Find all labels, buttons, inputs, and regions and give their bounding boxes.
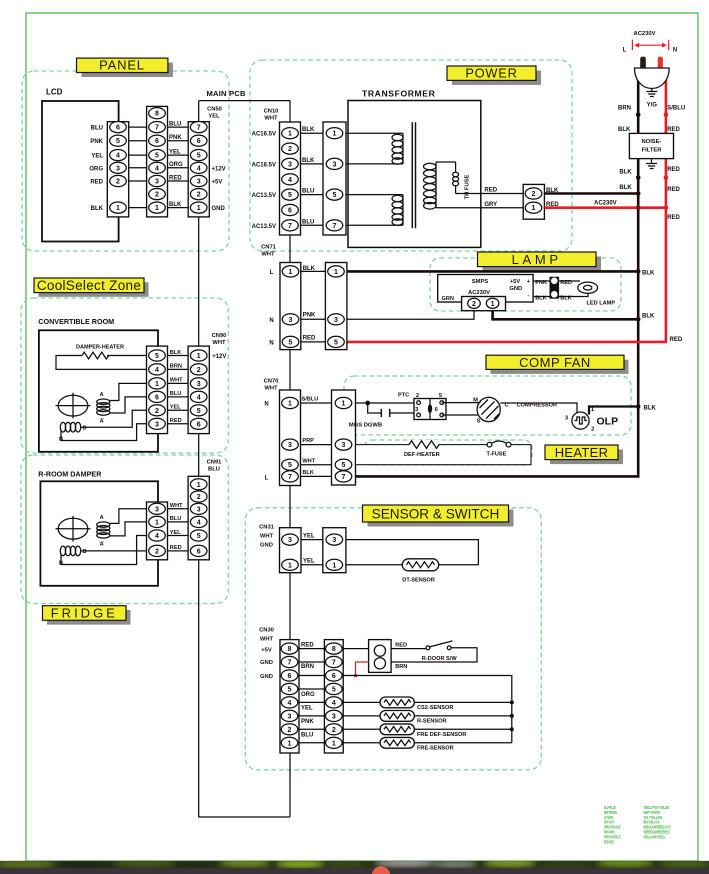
svg-text:Y/G: Y/G [647, 103, 658, 109]
compressor motor [442, 397, 557, 424]
transformer T1 [346, 89, 523, 248]
svg-text:A: A [100, 392, 104, 398]
damper motor (convertible) [56, 393, 91, 419]
svg-text:4: 4 [155, 165, 159, 172]
svg-text:LED LAMP: LED LAMP [587, 301, 616, 307]
svg-text:BRN: BRN [395, 664, 407, 670]
damper connector (r-room) [147, 502, 168, 560]
svg-text:MGS DGWB: MGS DGWB [349, 423, 382, 429]
svg-text:RED: RED [301, 642, 314, 648]
SENSOR &amp; SWITCH section dashed boundary [245, 508, 541, 770]
svg-text:ORG: ORG [301, 692, 315, 698]
svg-text:RED: RED [90, 180, 103, 186]
svg-text:4: 4 [155, 367, 159, 374]
svg-text:WHT: WHT [264, 116, 278, 122]
svg-text:3: 3 [288, 442, 292, 449]
svg-text:N: N [269, 340, 273, 346]
svg-text:6: 6 [332, 673, 336, 680]
svg-text:GND: GND [260, 660, 273, 666]
CN30 wire labels [301, 642, 315, 738]
svg-text:A: A [100, 542, 104, 548]
svg-text:BLK: BLK [535, 296, 547, 302]
svg-text:1: 1 [155, 381, 159, 388]
svg-text:6: 6 [116, 125, 120, 132]
svg-text:BLK: BLK [618, 127, 631, 133]
svg-text:3: 3 [332, 713, 336, 720]
svg-text:CN90: CN90 [212, 333, 227, 339]
svg-text:3: 3 [289, 317, 293, 324]
CN70 wire labels [302, 397, 319, 477]
svg-text:LCD: LCD [46, 88, 63, 97]
junction node [365, 401, 370, 406]
svg-text:R-ROOM DAMPER: R-ROOM DAMPER [38, 470, 102, 479]
svg-text:YEL: YEL [301, 706, 313, 712]
CN71 wire labels [303, 266, 316, 342]
wires damper to CN91 [168, 509, 189, 551]
svg-text:3: 3 [197, 506, 201, 513]
SMPS input connector [462, 297, 506, 311]
sensor harness connector [324, 640, 343, 753]
svg-text:5: 5 [332, 687, 336, 694]
svg-text:L: L [265, 476, 269, 482]
svg-text:N: N [264, 402, 268, 408]
svg-text:1: 1 [197, 482, 201, 489]
svg-text:DAMPER-HEATER: DAMPER-HEATER [76, 345, 124, 351]
svg-text:PTC: PTC [398, 392, 409, 398]
PTC starter [398, 392, 446, 419]
AC230V black wire to noise filter [544, 194, 638, 207]
svg-text:1: 1 [155, 519, 159, 526]
sensor FRE DEF [343, 724, 512, 738]
HEATER label [545, 445, 623, 464]
svg-text:8: 8 [155, 111, 159, 118]
sensor CS2 [343, 697, 512, 711]
svg-text:1: 1 [155, 205, 159, 212]
harness wire colour labels [169, 121, 183, 207]
R-ROOM DAMPER box [38, 470, 158, 586]
svg-text:GND: GND [509, 286, 522, 292]
bottom photo strip [0, 859, 709, 874]
svg-text:TRANSFORMER: TRANSFORMER [362, 89, 436, 99]
svg-text:CN31: CN31 [259, 525, 275, 531]
svg-text:+5V: +5V [510, 279, 521, 285]
svg-text:2: 2 [155, 192, 159, 199]
svg-text:1: 1 [288, 401, 292, 408]
svg-text:3: 3 [155, 179, 159, 186]
connector CN50 on MAIN PCB [188, 107, 222, 217]
svg-text:4: 4 [155, 533, 159, 540]
wires CN71 to lamp connector [301, 271, 326, 342]
lamp harness connector [325, 263, 347, 350]
svg-text:3: 3 [288, 161, 292, 168]
svg-text:T-FUSE: T-FUSE [487, 452, 507, 458]
junction dots right side [636, 112, 668, 409]
svg-text:5: 5 [334, 339, 338, 346]
damper connector (convertible) [147, 346, 168, 434]
svg-text:7: 7 [197, 125, 201, 132]
svg-text:6: 6 [288, 208, 292, 215]
svg-text:BLU: BLU [91, 126, 103, 132]
transformer primary connector [323, 122, 346, 235]
R-DOOR switch [391, 641, 477, 662]
svg-text:2: 2 [288, 727, 292, 734]
svg-text:4: 4 [332, 700, 336, 707]
svg-text:OLP: OLP [597, 416, 619, 428]
svg-text:LAMP: LAMP [512, 252, 562, 267]
svg-text:5: 5 [288, 462, 292, 469]
wires CN30 to sensor harness [299, 649, 324, 743]
svg-text:-: - [528, 293, 530, 299]
svg-text:1: 1 [334, 269, 338, 276]
FRIDGE label [43, 606, 131, 625]
PANEL label [77, 58, 173, 77]
svg-text:6: 6 [197, 548, 201, 555]
svg-text:RED: RED [667, 187, 680, 193]
svg-text:PNK: PNK [535, 280, 547, 286]
svg-text:4: 4 [197, 519, 201, 526]
svg-text:+12V: +12V [212, 166, 226, 172]
svg-text:1: 1 [333, 131, 337, 138]
svg-text:RED: RED [395, 642, 407, 648]
middle harness connector (pins 8-1) [147, 106, 168, 216]
svg-text:FRE DEF-SENSOR: FRE DEF-SENSOR [417, 732, 466, 738]
svg-text:WHT: WHT [260, 534, 274, 540]
svg-text:WHT: WHT [264, 386, 278, 392]
svg-text:CN30: CN30 [259, 628, 274, 634]
svg-text:BLK: BLK [302, 158, 315, 164]
svg-text:RED: RED [670, 337, 683, 343]
OLP to live rail wire [589, 405, 656, 414]
svg-text:7: 7 [333, 223, 337, 230]
LAMP section dashed boundary [430, 258, 621, 311]
svg-text:5: 5 [289, 339, 293, 346]
sensor R [343, 711, 512, 725]
svg-text:POWER: POWER [465, 66, 517, 81]
connector CN30 [259, 628, 299, 754]
svg-text:RED: RED [484, 188, 497, 194]
svg-text:6: 6 [197, 421, 201, 428]
svg-text:FRE-SENSOR: FRE-SENSOR [417, 745, 454, 751]
svg-text:5: 5 [155, 353, 159, 360]
svg-text:COMP FAN: COMP FAN [519, 355, 591, 370]
svg-text:+5V: +5V [212, 180, 223, 186]
svg-text:2: 2 [197, 494, 201, 501]
svg-text:8: 8 [288, 646, 292, 653]
svg-text:1: 1 [289, 269, 293, 276]
svg-text:6: 6 [155, 138, 159, 145]
svg-text:1: 1 [288, 562, 292, 569]
OLP overload protector [500, 403, 618, 433]
svg-text:BLU: BLU [302, 189, 314, 195]
svg-text:WHT: WHT [261, 252, 275, 258]
svg-text:3: 3 [116, 165, 120, 172]
CoolSelect Zone dashed boundary [21, 298, 228, 453]
SMPS output wire [493, 311, 655, 320]
svg-text:6: 6 [155, 394, 159, 401]
svg-text:2: 2 [155, 408, 159, 415]
svg-text:DT-SENSOR: DT-SENSOR [402, 578, 435, 584]
noise filter [629, 133, 673, 168]
svg-text:3: 3 [197, 381, 201, 388]
HEATER section dashed boundary [364, 440, 532, 465]
stepper coil A (convertible) [97, 383, 147, 424]
svg-text:B: B [83, 426, 87, 432]
svg-text:4: 4 [288, 177, 292, 184]
lamp live wire [347, 270, 655, 276]
svg-text:SENSOR & SWITCH: SENSOR & SWITCH [372, 507, 500, 522]
connector CN90 [188, 333, 226, 434]
svg-text:4: 4 [197, 394, 201, 401]
comp harness connector [332, 390, 356, 485]
svg-text:RED: RED [667, 127, 680, 133]
svg-text:2: 2 [197, 192, 201, 199]
CONVERTIBLE ROOM box [38, 317, 158, 452]
svg-text:5: 5 [333, 192, 337, 199]
svg-text:RED=RED: RED=RED [604, 839, 614, 844]
svg-text:7: 7 [288, 660, 292, 667]
svg-text:HEATER: HEATER [555, 445, 609, 460]
LCD box [42, 88, 119, 242]
svg-text:1: 1 [288, 131, 292, 138]
svg-text:3: 3 [342, 442, 346, 449]
svg-text:S/BLU=WHT/BLU: S/BLU=WHT/BLU [644, 834, 666, 839]
starting capacitor [349, 403, 419, 429]
svg-text:WHT: WHT [260, 637, 274, 643]
POWER section dashed boundary [250, 60, 572, 251]
svg-text:FRIDGE: FRIDGE [51, 606, 118, 621]
svg-text:+12V: +12V [212, 354, 226, 360]
svg-text:1: 1 [288, 740, 292, 747]
plug wire labels [618, 106, 685, 344]
svg-text:TH FUSE: TH FUSE [465, 174, 471, 199]
svg-text:DEF-HEATER: DEF-HEATER [404, 452, 440, 458]
MAIN PCB bus (left rail) [199, 101, 290, 817]
svg-text:PANEL: PANEL [99, 58, 145, 73]
wires CN10 to transformer connector [301, 133, 324, 225]
svg-text:+5V: +5V [261, 648, 272, 654]
LAMP label [478, 252, 602, 271]
wires damper to CN90 [168, 356, 189, 424]
svg-text:CN50: CN50 [207, 107, 222, 113]
CN10 voltage labels [252, 132, 276, 230]
connector CN31 [259, 525, 301, 573]
svg-text:CN10: CN10 [264, 109, 279, 115]
svg-text:1: 1 [332, 562, 336, 569]
svg-text:5: 5 [116, 138, 120, 145]
svg-text:AC13.5V: AC13.5V [252, 193, 276, 199]
svg-text:5: 5 [288, 687, 292, 694]
svg-text:5: 5 [197, 408, 201, 415]
svg-text:NOISE-: NOISE- [642, 139, 662, 145]
svg-text:CS2-SENSOR: CS2-SENSOR [417, 705, 453, 711]
MAIN PCB label [207, 89, 246, 98]
SMPS unit [438, 275, 533, 303]
defrost heater loop [356, 440, 532, 465]
LED lamp connector [533, 277, 572, 302]
svg-text:2: 2 [288, 146, 292, 153]
stepper coil B (r-room) [59, 536, 147, 567]
svg-text:R-DOOR S/W: R-DOOR S/W [422, 656, 458, 662]
svg-text:BLK: BLK [644, 405, 657, 411]
PANEL section dashed boundary [22, 71, 229, 251]
POWER label [447, 66, 541, 85]
svg-text:M: M [473, 398, 478, 404]
svg-text:GND: GND [212, 206, 226, 212]
sensor FRE [343, 737, 512, 751]
svg-text:BLK: BLK [302, 127, 315, 133]
svg-text:A: A [100, 419, 104, 425]
svg-text:B: B [83, 549, 87, 555]
svg-text:AC230V: AC230V [634, 31, 656, 37]
svg-text:7: 7 [155, 125, 159, 132]
COMP FAN label [486, 355, 629, 374]
svg-text:FILTER: FILTER [642, 148, 663, 154]
sensor ground bus [343, 676, 514, 743]
svg-text:4: 4 [197, 165, 201, 172]
transformer output connector (2 pin) [523, 184, 559, 219]
svg-text:AC16.5V: AC16.5V [252, 132, 276, 138]
svg-text:2: 2 [591, 427, 594, 433]
svg-text:3: 3 [332, 537, 336, 544]
svg-text:AC230V: AC230V [594, 200, 617, 206]
CoolSelect Zone label [34, 278, 149, 297]
damper motor (r-room) [56, 516, 91, 542]
svg-text:BLK: BLK [642, 314, 655, 320]
svg-text:S: S [477, 419, 481, 425]
wires CN31 to sensor connector [301, 540, 323, 565]
svg-text:RED: RED [303, 335, 316, 341]
svg-text:R-SENSOR: R-SENSOR [417, 718, 447, 724]
svg-text:1: 1 [532, 205, 536, 212]
svg-text:7: 7 [342, 474, 346, 481]
svg-text:5: 5 [197, 533, 201, 540]
svg-text:3: 3 [288, 713, 292, 720]
svg-text:1: 1 [342, 401, 346, 408]
svg-text:3: 3 [334, 317, 338, 324]
svg-text:5: 5 [288, 192, 292, 199]
svg-text:3: 3 [333, 161, 337, 168]
svg-text:1: 1 [197, 353, 201, 360]
svg-text:WHT: WHT [302, 458, 315, 464]
svg-text:4: 4 [288, 700, 292, 707]
CN71 L/N labels [269, 270, 273, 346]
svg-text:CONVERTIBLE ROOM: CONVERTIBLE ROOM [38, 317, 114, 326]
svg-text:7: 7 [288, 474, 292, 481]
svg-text:GRN: GRN [442, 296, 454, 302]
svg-text:BLK: BLK [619, 185, 632, 191]
svg-text:AC13.5V: AC13.5V [252, 224, 276, 230]
svg-text:BRN: BRN [301, 664, 314, 670]
svg-text:A: A [100, 515, 104, 521]
svg-text:1: 1 [491, 301, 495, 308]
svg-text:BLK: BLK [619, 170, 632, 176]
LED lamp [559, 281, 615, 307]
svg-text:RED: RED [667, 167, 680, 173]
svg-text:4: 4 [116, 153, 120, 160]
svg-text:GRY: GRY [484, 202, 497, 208]
COMP FAN section dashed boundary [344, 376, 631, 435]
svg-text:PRP: PRP [302, 438, 314, 444]
svg-text:3: 3 [155, 421, 159, 428]
svg-text:N: N [269, 318, 273, 324]
connector CN10 [264, 109, 301, 236]
CN10 wire labels [302, 127, 315, 225]
svg-text:6: 6 [197, 138, 201, 145]
svg-text:CN71: CN71 [261, 245, 277, 251]
svg-text:BLK: BLK [302, 470, 314, 476]
connector CN71 [261, 245, 301, 350]
svg-text:MAIN PCB: MAIN PCB [207, 89, 246, 98]
svg-text:BLK: BLK [642, 270, 655, 276]
svg-text:3: 3 [197, 179, 201, 186]
svg-text:7: 7 [332, 660, 336, 667]
thermal fuse T-FUSE [487, 441, 512, 458]
svg-text:CoolSelect Zone: CoolSelect Zone [37, 278, 141, 293]
svg-text:SMPS: SMPS [472, 279, 489, 285]
mains plug [623, 31, 678, 109]
svg-text:BLK: BLK [91, 206, 104, 212]
svg-text:6: 6 [288, 673, 292, 680]
compressor feed wire [356, 402, 419, 404]
svg-text:5: 5 [155, 153, 159, 160]
neutral wire red vertical [346, 80, 666, 342]
svg-text:RED: RED [667, 215, 680, 221]
svg-text:1: 1 [197, 205, 201, 212]
wire colour legend [604, 805, 671, 844]
svg-text:CN70: CN70 [264, 379, 279, 385]
svg-text:GND: GND [260, 543, 273, 549]
svg-text:YEL: YEL [303, 559, 315, 565]
svg-text:BRN: BRN [618, 106, 631, 112]
svg-text:2: 2 [197, 367, 201, 374]
svg-text:PNK: PNK [301, 719, 314, 725]
wires CN70 to comp connector [301, 403, 332, 476]
svg-text:PNK: PNK [303, 313, 316, 319]
CN91 wire labels [170, 503, 183, 551]
DT sensor loop [346, 540, 479, 584]
sensor connector (DT) [323, 528, 346, 573]
svg-text:3: 3 [155, 506, 159, 513]
transformer output labels [484, 188, 497, 208]
wires middle connector to CN50 [168, 127, 189, 208]
svg-text:ORG: ORG [89, 166, 103, 172]
svg-text:PNK: PNK [90, 139, 103, 145]
svg-text:L: L [623, 47, 627, 53]
svg-text:2: 2 [332, 727, 336, 734]
FRIDGE section dashed boundary [21, 455, 228, 604]
svg-text:GND: GND [260, 674, 273, 680]
wires LCD connector to middle connector [129, 127, 147, 208]
svg-text:1: 1 [116, 205, 120, 212]
CN70 N/L labels [264, 402, 268, 482]
svg-text:5: 5 [197, 153, 201, 160]
svg-text:2: 2 [416, 393, 419, 399]
connector CN91 [188, 460, 222, 560]
door switch ground jog (red) [354, 662, 369, 677]
svg-text:2: 2 [155, 548, 159, 555]
svg-text:S/BLU: S/BLU [302, 397, 319, 403]
svg-text:8: 8 [332, 646, 336, 653]
svg-text:3: 3 [288, 537, 292, 544]
svg-text:YEL: YEL [208, 114, 220, 120]
connector LCD side (pins 6-1) [107, 122, 128, 217]
svg-text:N: N [673, 47, 677, 53]
svg-text:YEL: YEL [303, 533, 315, 539]
svg-text:2: 2 [472, 301, 476, 308]
door switch connector [343, 640, 426, 673]
svg-text:2: 2 [532, 191, 536, 198]
svg-text:AC230V: AC230V [468, 290, 490, 296]
